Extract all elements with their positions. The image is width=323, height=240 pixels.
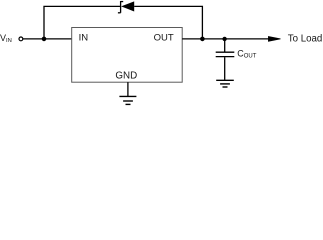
arrowhead to load <box>268 37 280 42</box>
junction: output node B <box>200 37 205 42</box>
wire: GND pin stub <box>127 82 129 96</box>
input terminal (open circle) <box>19 37 23 41</box>
capacitor COUT plates <box>216 52 235 56</box>
junction: input node A <box>42 37 47 42</box>
wire: OUT pin to load arrow <box>182 38 269 40</box>
wire: VIN terminal to IN pin <box>23 38 72 40</box>
svg-text:IN: IN <box>79 32 89 43</box>
wire: capacitor to ground <box>224 57 226 80</box>
svg-text:To Load: To Load <box>288 33 322 44</box>
junction: COUT node <box>222 37 226 41</box>
wire: diode anode right and down to output node <box>134 6 202 39</box>
svg-text:GND: GND <box>115 71 137 82</box>
wire: input node up and right to diode anode <box>44 6 120 39</box>
ground symbol (GND pin) <box>119 96 136 104</box>
svg-text:OUT: OUT <box>154 32 174 43</box>
wire: COUT node down to capacitor <box>224 39 226 52</box>
ground symbol (COUT) <box>216 80 234 87</box>
diode D1 (Schottky, reverse-protection, cathode left) <box>118 1 134 13</box>
regulator U1 box <box>72 28 183 83</box>
